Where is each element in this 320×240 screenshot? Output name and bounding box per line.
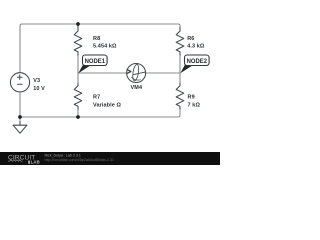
svg-text:Nick_Dutya : Lab 2 3.1: Nick_Dutya : Lab 2 3.1	[45, 154, 81, 158]
svg-text:4.3 kΩ: 4.3 kΩ	[187, 44, 205, 50]
svg-text:7 kΩ: 7 kΩ	[188, 102, 201, 108]
svg-text:NODE1: NODE1	[85, 58, 106, 65]
svg-text:R8: R8	[93, 36, 100, 42]
svg-text:V3: V3	[33, 78, 40, 84]
svg-text:NODE2: NODE2	[187, 58, 208, 65]
svg-text:5.454 kΩ: 5.454 kΩ	[93, 44, 117, 50]
svg-text:VM4: VM4	[131, 85, 143, 91]
svg-text:10 V: 10 V	[33, 86, 45, 92]
svg-text:R7: R7	[93, 95, 100, 101]
svg-text:Variable Ω: Variable Ω	[93, 102, 122, 108]
svg-text:LAB: LAB	[31, 160, 40, 165]
svg-text:R9: R9	[188, 95, 195, 101]
svg-text:http://circuitlab.com/c/5lp2ak: http://circuitlab.com/c/5lp2ak5od8h/lab-…	[45, 158, 115, 162]
svg-text:R6: R6	[187, 36, 194, 42]
